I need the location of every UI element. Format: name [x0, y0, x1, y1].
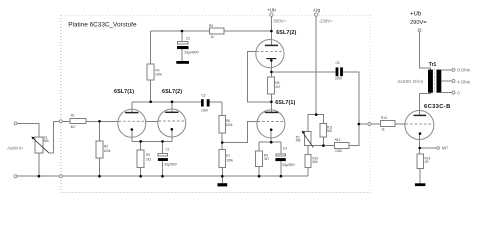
- resistor R2: [96, 141, 103, 158]
- wire +Ub lead: [270, 16, 272, 31]
- resistor R12: [335, 142, 349, 148]
- svg-text:1k: 1k: [210, 35, 214, 39]
- svg-text:R5: R5: [209, 24, 213, 28]
- svg-text:6SL7(2): 6SL7(2): [162, 89, 182, 95]
- svg-text:6C33C-B: 6C33C-B: [424, 104, 451, 110]
- wire T3 cathode lead: [270, 60, 272, 72]
- svg-text:4k7: 4k7: [71, 125, 76, 129]
- svg-text:100k: 100k: [226, 158, 233, 162]
- svg-text:C2: C2: [186, 36, 190, 40]
- wire R10 riser: [307, 168, 309, 177]
- junction T2 plate bus: [171, 101, 174, 104]
- terminal tap 0: [452, 91, 455, 94]
- wire T3 grid to lower plate node: [248, 52, 272, 102]
- capacitor C2: [177, 36, 200, 54]
- svg-text:MP: MP: [442, 146, 448, 151]
- wire C1 leads: [162, 141, 164, 153]
- wire R7 leads: [221, 143, 223, 150]
- wire MP: [420, 147, 437, 149]
- triode V4 6SL7(1) lower: [257, 110, 285, 138]
- svg-text:R1: R1: [71, 113, 75, 117]
- svg-text:90k: 90k: [327, 129, 333, 133]
- potentiometer P1: [31, 136, 49, 153]
- junction R4 plate bus: [149, 101, 152, 104]
- wire cathode output to C5: [271, 71, 335, 73]
- capacitor C3: [201, 94, 210, 113]
- svg-text:R12: R12: [335, 138, 341, 142]
- pin border left ground: [59, 175, 62, 178]
- wire Tr1 primary bottom to plate: [420, 93, 431, 116]
- wire C5 out to node: [343, 72, 359, 146]
- junction 6C33C cathode: [418, 147, 421, 150]
- capacitor C5: [335, 61, 343, 81]
- svg-text:+Ub: +Ub: [267, 7, 276, 12]
- terminal +Ub 290V: [418, 29, 421, 32]
- wire T1 cathode lead: [131, 131, 133, 142]
- wire T2 plate lead: [171, 102, 173, 113]
- junction cathode out: [270, 71, 273, 74]
- wire R11 bottom: [322, 137, 324, 146]
- svg-text:4 Ohm: 4 Ohm: [457, 80, 471, 85]
- resistor R14: [417, 154, 424, 168]
- svg-text:300V=: 300V=: [273, 19, 286, 24]
- triode V1 6SL7(1): [118, 109, 146, 137]
- wire P1 bottom: [38, 153, 40, 176]
- wire T2 cathode lead: [171, 131, 173, 142]
- wire T4 grid feed: [222, 122, 257, 143]
- wire R14 leads: [419, 148, 421, 154]
- svg-text:8 Ohm: 8 Ohm: [457, 68, 471, 73]
- transformer Tr1: [428, 62, 441, 94]
- svg-text:C5: C5: [336, 61, 340, 65]
- terminal MP: [437, 147, 440, 150]
- wire P1 wiper riser: [49, 121, 60, 153]
- wire plate bus: [132, 101, 201, 103]
- terminal tap 4 Ohm: [452, 80, 455, 83]
- wire top supply bus: [151, 30, 272, 32]
- svg-text:+Ub: +Ub: [410, 12, 422, 18]
- resistor R9: [256, 151, 263, 167]
- svg-text:Audio In: Audio In: [7, 146, 23, 151]
- triode V2 6SL7(2): [158, 109, 186, 137]
- svg-text:100k: 100k: [335, 149, 342, 153]
- svg-text:Tr1: Tr1: [429, 62, 437, 68]
- terminal +Ub: [270, 13, 273, 16]
- junction C1 cathode bus: [161, 140, 164, 143]
- wire R1 to T1 grid: [86, 120, 118, 122]
- wire +Ub 290V to Tr1 primary: [420, 32, 431, 70]
- wire R2 bottom: [99, 158, 101, 176]
- resistor R6: [219, 115, 226, 133]
- svg-text:C3: C3: [202, 94, 206, 98]
- junction grid feed node: [358, 123, 361, 126]
- junction T4 cathode tee: [270, 141, 273, 144]
- wire pin to R1: [62, 120, 70, 122]
- svg-text:C4: C4: [283, 147, 287, 151]
- svg-text:1R: 1R: [425, 160, 430, 164]
- wire 6C33C cathode: [419, 134, 421, 148]
- svg-text:2k7: 2k7: [275, 85, 280, 89]
- terminal Audio In top: [14, 122, 17, 125]
- junction R3 cathode bus: [139, 140, 142, 143]
- junction C4 ground: [280, 175, 283, 178]
- pin border left signal: [59, 120, 62, 123]
- wire T4 plate lead: [270, 102, 272, 113]
- resistor R3: [137, 150, 144, 167]
- wire ground bus: [16, 175, 308, 177]
- terminal tap 8 Ohm: [452, 68, 455, 71]
- svg-text:1k: 1k: [381, 127, 385, 131]
- capacitor C4: [275, 147, 295, 168]
- svg-text:Platine 6C33C_Vorstufe: Platine 6C33C_Vorstufe: [68, 22, 137, 29]
- wire T3 plate lead: [270, 31, 272, 45]
- wire R9 leads: [258, 142, 260, 151]
- svg-text:R13: R13: [381, 116, 387, 120]
- resistor R4: [147, 64, 154, 80]
- terminal -Ug: [315, 13, 318, 16]
- junction R6 tap: [221, 141, 224, 144]
- wire T4 cathode tee: [270, 130, 272, 143]
- resistor R13: [381, 121, 395, 127]
- triode V5 6C33C-B: [405, 111, 434, 140]
- junction R7 ground: [221, 175, 224, 178]
- svg-text:100k: 100k: [104, 149, 111, 153]
- ground under C2: [176, 61, 189, 64]
- wire R3 leads: [140, 141, 142, 150]
- wire R2 drop: [99, 121, 101, 141]
- wire C4 leads: [280, 142, 282, 154]
- resistor R5: [210, 28, 225, 34]
- svg-text:6SL7(2): 6SL7(2): [276, 30, 296, 36]
- wire R6 leads: [221, 102, 223, 116]
- svg-text:50k: 50k: [44, 139, 50, 143]
- wire R4 chain: [150, 31, 152, 64]
- svg-text:33µ/400V: 33µ/400V: [184, 50, 199, 54]
- svg-text:2k2: 2k2: [146, 157, 151, 161]
- junction R3 ground: [139, 175, 142, 178]
- svg-text:3k7: 3k7: [264, 157, 269, 161]
- wire tap 0: [441, 92, 452, 94]
- potentiometer P2: [296, 131, 314, 148]
- triode V3 6SL7(2) upper: [256, 40, 284, 68]
- wire C3 to R6 corner: [210, 101, 223, 103]
- svg-text:C1: C1: [166, 147, 170, 151]
- svg-text:290V=: 290V=: [410, 20, 427, 26]
- junction C1 ground: [161, 175, 164, 178]
- resistor R7: [219, 150, 226, 168]
- wire R7 ground stub: [221, 176, 223, 183]
- svg-text:-Ug: -Ug: [313, 7, 321, 12]
- resistor R10: [305, 154, 311, 167]
- junction lower plate node: [270, 101, 273, 104]
- junction wiper node: [322, 144, 325, 147]
- PCB outline Platine: [61, 16, 370, 193]
- wire tap 4 Ohm: [441, 80, 452, 82]
- wire T1 plate lead: [131, 102, 133, 113]
- svg-text:100k: 100k: [155, 72, 162, 76]
- wire R13 to 6C33C grid: [395, 123, 405, 125]
- svg-text:100k: 100k: [226, 123, 233, 127]
- wire grid link T1-T2: [146, 120, 158, 122]
- resistor R1: [70, 118, 86, 123]
- junction +Ub plate: [270, 30, 273, 33]
- svg-text:33µ/35V: 33µ/35V: [282, 163, 295, 167]
- wire -Ug branch to R11: [316, 115, 323, 124]
- wire -Ug rail: [315, 16, 317, 114]
- wire C2 leads: [181, 31, 183, 42]
- resistor R11: [320, 123, 327, 137]
- junction C2 top: [181, 30, 184, 33]
- svg-text:6SL7(1): 6SL7(1): [114, 89, 134, 95]
- wire tap 8 Ohm: [441, 69, 452, 71]
- resistor R8: [268, 77, 275, 94]
- ground under R14: [415, 183, 426, 186]
- svg-text:33µ/50V: 33µ/50V: [164, 163, 177, 167]
- junction P1 ground: [38, 175, 41, 178]
- wire -Ug branch to P2: [308, 115, 316, 132]
- junction R9 ground: [258, 175, 261, 178]
- wire input top: [16, 123, 39, 137]
- svg-text:-130V=: -130V=: [319, 19, 334, 24]
- junction R2 ground: [98, 175, 101, 178]
- svg-text:100n: 100n: [201, 108, 208, 112]
- terminal Audio In bottom: [14, 175, 17, 178]
- capacitor C1: [158, 147, 178, 166]
- svg-text:2x500 Ohm: 2x500 Ohm: [398, 79, 424, 84]
- svg-text:220n: 220n: [335, 77, 342, 81]
- wire R8 leads: [270, 72, 272, 77]
- wire wiper to node: [312, 145, 335, 147]
- ground under R7: [218, 183, 228, 186]
- wire P2 bottom: [307, 146, 309, 155]
- wire cathode bus stage1: [132, 140, 172, 142]
- junction R1 R2: [98, 120, 101, 123]
- wire node to border pin to R13: [359, 123, 368, 125]
- svg-text:6SL7(1): 6SL7(1): [275, 100, 295, 106]
- junction -Ug split: [315, 113, 318, 116]
- pin border right grid feed: [368, 123, 371, 126]
- svg-text:65k: 65k: [312, 160, 318, 164]
- svg-text:25k: 25k: [296, 139, 302, 143]
